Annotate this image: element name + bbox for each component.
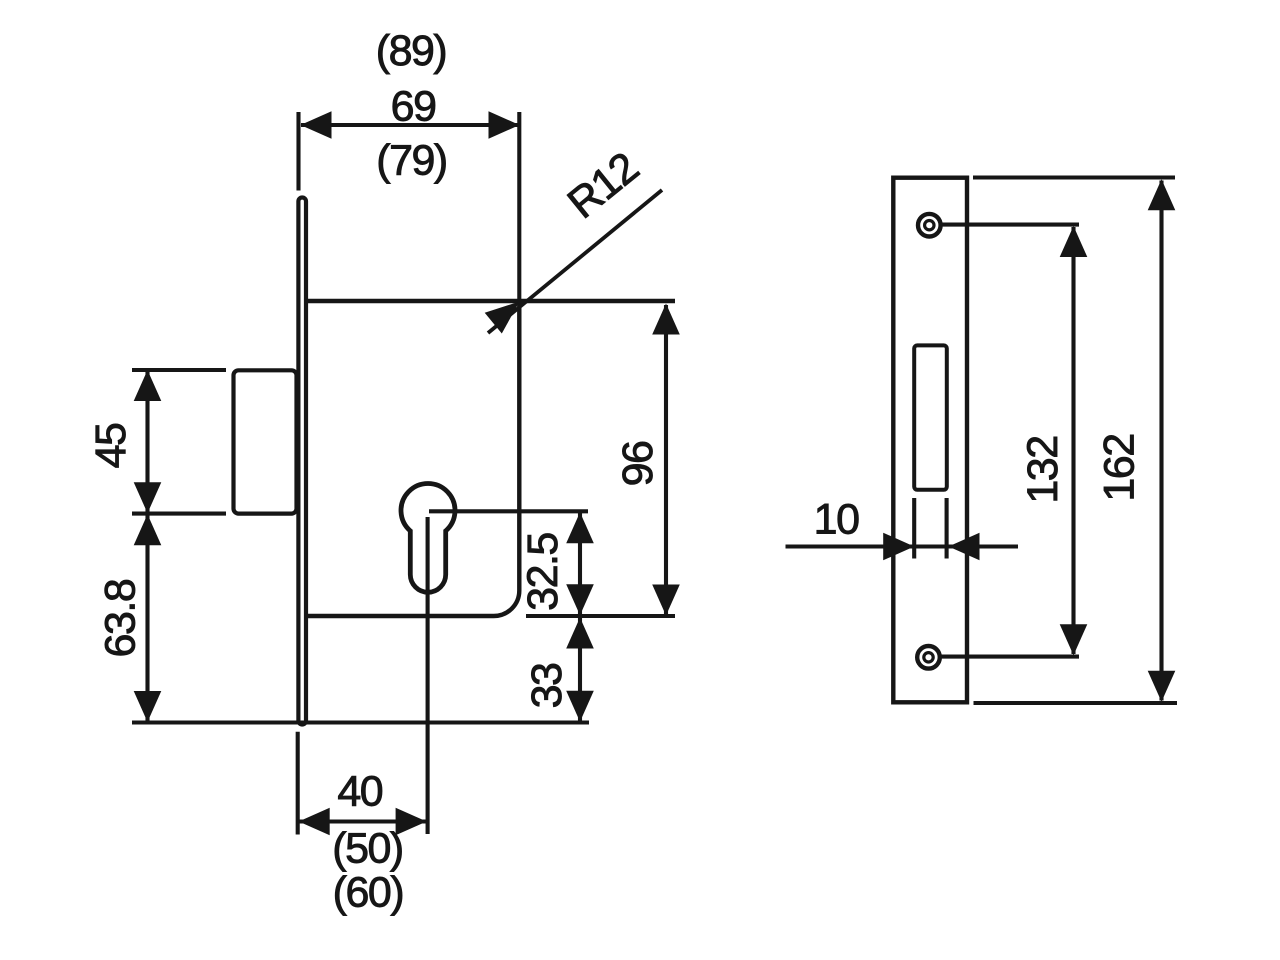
svg-text:(50): (50) [332, 824, 402, 872]
dimension line 132 with arrows [1071, 227, 1075, 654]
deadbolt [234, 370, 297, 513]
cutout extension line right [945, 498, 949, 559]
top screw hole outer [918, 214, 941, 237]
dimension 132 connector top [941, 223, 1079, 227]
latch cutout [914, 345, 947, 489]
svg-text:(89): (89) [376, 27, 446, 75]
dimension 69 extension line right / case right edge extension [517, 112, 521, 300]
keyhole horizontal centerline [429, 509, 588, 513]
dimension 69 extension line left [296, 112, 300, 191]
svg-text:162: 162 [1096, 434, 1144, 501]
bottom screw hole outer [917, 646, 940, 669]
svg-text:33: 33 [523, 663, 571, 708]
svg-text:40: 40 [337, 768, 382, 816]
keyhole vertical centerline [426, 517, 430, 834]
svg-text:132: 132 [1019, 436, 1067, 503]
lock case top edge + extension line for 96 dim [306, 299, 675, 303]
svg-text:45: 45 [87, 423, 135, 468]
strike plate (front view) [893, 178, 967, 703]
dimension 162 extension line top [973, 175, 1175, 179]
svg-text:32.5: 32.5 [519, 533, 567, 611]
dimension 45 tick top [132, 368, 226, 372]
dimension 10 line with arrows [786, 544, 1019, 548]
dimension 45 tick bottom [132, 512, 226, 516]
dimension 132 connector bottom [941, 655, 1079, 659]
svg-text:(60): (60) [333, 868, 403, 916]
dimension line 40 with arrows [299, 819, 426, 823]
svg-text:63.8: 63.8 [96, 579, 144, 657]
dimension line 63.8 with arrows [145, 515, 149, 722]
dimension 96 bottom extension line [526, 614, 675, 618]
radius leader line R12 [488, 190, 662, 333]
dimension line 45 with arrows [145, 371, 149, 513]
dimension line 33 with arrows [578, 618, 582, 722]
top screw hole inner [925, 221, 934, 230]
dimension line 96 with arrows [664, 305, 668, 614]
svg-text:69: 69 [391, 82, 436, 130]
radius leader arrowhead at corner [485, 302, 520, 334]
cutout extension line left [912, 498, 916, 559]
faceplate (lock front plate, side view) [298, 198, 306, 725]
dimension 40 extension line left [296, 732, 300, 835]
dimension line 69 with arrows [301, 123, 519, 127]
dimension 162 extension line bottom [974, 701, 1178, 705]
lock case body (right and bottom edges with rounded corner) [306, 301, 519, 616]
dimension line 162 with arrows [1159, 181, 1163, 701]
bottom extension line (63.8 and 33 dims) [132, 720, 589, 724]
svg-text:(79): (79) [376, 137, 446, 185]
dimension line 32.5 with arrows [578, 513, 582, 615]
svg-text:10: 10 [814, 496, 859, 544]
keyhole (euro cylinder profile) [401, 484, 455, 593]
bottom screw hole inner [924, 653, 933, 662]
svg-text:96: 96 [614, 441, 662, 486]
